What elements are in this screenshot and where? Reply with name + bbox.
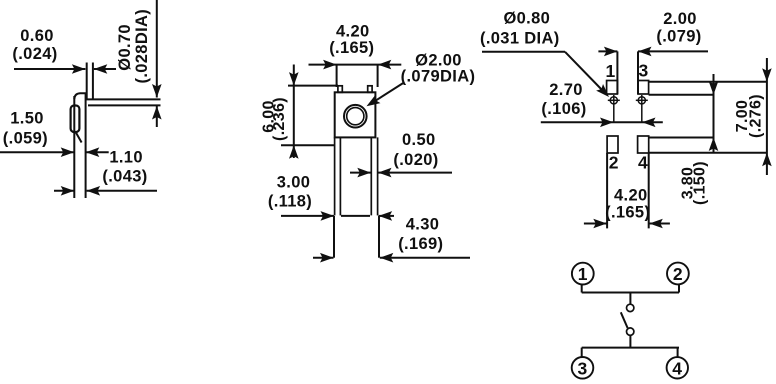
dimension text O0.80 (.031 DIA) xyxy=(480,10,560,48)
extension line pin4 bottom extended right xyxy=(649,152,767,154)
dimension text 0.60 (.024) xyxy=(12,27,57,63)
rotated dimension text 6.00 (.236) xyxy=(260,97,288,141)
pin 3 hole circle with cross xyxy=(636,95,648,122)
svg-text:(.169): (.169) xyxy=(398,235,443,253)
svg-text:(.028DIA): (.028DIA) xyxy=(133,9,151,84)
wire bottom bus to terminal 3 xyxy=(581,348,583,358)
dimension line 7.00 vertical with outside arrows xyxy=(762,58,772,175)
svg-text:1.50: 1.50 xyxy=(10,109,44,127)
extension line pin4 top extended right xyxy=(649,137,714,139)
left top post xyxy=(338,86,342,93)
pin label 1 xyxy=(606,61,616,81)
svg-text:(.020): (.020) xyxy=(393,151,438,169)
dimension text 4.20 (.165) right view xyxy=(605,187,650,222)
svg-text:Ø0.80: Ø0.80 xyxy=(503,10,550,28)
svg-text:0.60: 0.60 xyxy=(20,27,54,45)
dimension text 4.30 (.169) xyxy=(398,215,443,253)
dimension line 2.00 left segment with right arrow xyxy=(598,47,617,57)
extension line right tick of 0.60 xyxy=(92,63,94,100)
svg-text:1.10: 1.10 xyxy=(109,149,143,167)
wire bottom bus to terminal 4 xyxy=(677,348,679,358)
svg-text:4.20: 4.20 xyxy=(614,187,648,205)
lower contact circle xyxy=(627,328,634,335)
extension line left for 4.30 xyxy=(333,216,335,258)
svg-text:4: 4 xyxy=(638,153,648,173)
svg-text:(.150): (.150) xyxy=(692,161,709,205)
right top post xyxy=(368,86,372,93)
pin 3 outline xyxy=(638,81,649,95)
svg-text:(.276): (.276) xyxy=(747,94,764,138)
bump lower diagonal xyxy=(76,132,82,143)
dimension text O2.00 (.079DIA) xyxy=(401,52,476,86)
extension line left tick of 0.60 xyxy=(86,63,88,100)
dimension line 4.20 right view left segment with right arrow xyxy=(584,219,607,229)
dimension text 0.50 (.020) xyxy=(393,131,438,169)
dimension line 3.00 with arrows xyxy=(281,211,394,221)
dimension line 2.70 with inward pointing arrows xyxy=(541,118,663,128)
switch body front outline xyxy=(335,92,376,137)
dimension line 2.00 right segment with left arrow xyxy=(638,47,708,57)
dimension line 0.50 left segment with right arrow xyxy=(350,168,371,178)
terminal circle 3 xyxy=(572,357,594,379)
wire terminal 2 to top bus xyxy=(678,285,680,293)
extension line pin1 right edge xyxy=(616,51,618,94)
extension line pin4 right edge extended down xyxy=(648,153,650,228)
dimension text 1.10 (.043) xyxy=(102,149,147,186)
dimension line 4.20 with outside arrows xyxy=(309,60,402,70)
dimension line 3.80 vertical with outside arrows xyxy=(709,74,719,152)
svg-text:(.165): (.165) xyxy=(605,203,650,221)
terminal circle 2 xyxy=(667,263,689,285)
dimension line O0.70 upper vertical with down arrow xyxy=(152,0,162,98)
dimension line 1.10 right segment with left arrow xyxy=(87,186,157,196)
pin 2 outline xyxy=(607,136,618,153)
rotated dimension text 7.00 (.276) xyxy=(734,94,764,138)
switch body side profile pin vertical lines xyxy=(74,93,85,198)
svg-text:4.20: 4.20 xyxy=(336,23,370,41)
extension line bottom for 6.00 xyxy=(281,144,335,146)
dimension line 0.50 right segment with left arrow xyxy=(378,168,452,178)
switch lever xyxy=(621,312,628,328)
dimension line 6.00 vertical with outside arrows xyxy=(289,65,299,159)
pin label 4 xyxy=(638,153,648,173)
svg-text:3: 3 xyxy=(639,60,649,80)
pin 1 outline xyxy=(607,81,618,95)
svg-text:(.118): (.118) xyxy=(268,193,312,211)
svg-text:2.00: 2.00 xyxy=(663,10,697,28)
switch lead horizontal lines xyxy=(86,99,161,105)
dimension line 1.50 right segment with left arrow xyxy=(86,147,109,157)
dimension text 1.50 (.059) xyxy=(3,109,48,147)
side bump on body xyxy=(71,106,80,133)
svg-text:(.024): (.024) xyxy=(12,45,57,63)
svg-text:(.165): (.165) xyxy=(329,39,374,57)
right leg lines xyxy=(371,137,377,215)
left leg lines xyxy=(335,137,341,215)
dimension text 3.00 (.118) xyxy=(268,173,312,210)
svg-text:(.106): (.106) xyxy=(541,100,586,118)
rotated dimension text 3.80 (.150) xyxy=(679,161,708,205)
extension line top for 6.00 xyxy=(288,85,338,87)
pin label 3 xyxy=(639,60,649,80)
svg-text:(.236): (.236) xyxy=(271,97,288,141)
leader line for O0.80 with arrow xyxy=(482,52,612,101)
extension line pin3 bottom extended right xyxy=(649,94,714,96)
dimension line 4.30 right segment with left arrow xyxy=(380,253,470,263)
extension line pin3 top extended right xyxy=(649,81,767,83)
pin 4 outline xyxy=(638,136,649,153)
dimension line 0.60 left segment with right-pointing arrow xyxy=(14,64,85,74)
wire top bus to upper contact xyxy=(629,293,631,305)
bottom bus wire xyxy=(582,347,679,349)
extension line left of 4.20 xyxy=(336,65,338,87)
svg-text:(.059): (.059) xyxy=(3,129,48,147)
pin 1 hole circle with cross xyxy=(608,95,620,122)
terminal circle 4 xyxy=(667,357,688,378)
dimension line 1.10 left segment with right arrow xyxy=(54,186,74,196)
svg-text:(.043): (.043) xyxy=(102,168,147,186)
pin label 2 xyxy=(609,153,619,173)
svg-text:0.50: 0.50 xyxy=(402,131,436,149)
svg-text:2: 2 xyxy=(609,153,619,173)
svg-text:2: 2 xyxy=(673,264,683,284)
svg-text:(.079): (.079) xyxy=(656,28,701,46)
svg-text:4: 4 xyxy=(672,358,682,378)
svg-text:(.031 DIA): (.031 DIA) xyxy=(480,29,560,47)
rotated dimension text O0.70 (.028DIA) xyxy=(116,9,151,84)
dimension line 4.30 left segment with right arrow xyxy=(313,253,334,263)
extension line pin2 left edge extended down xyxy=(606,153,608,228)
dimension text 2.70 (.106) xyxy=(541,81,586,118)
terminal circle 1 xyxy=(572,263,594,285)
extension line pin3 left edge xyxy=(637,51,639,94)
svg-text:1: 1 xyxy=(606,61,616,81)
svg-text:4.30: 4.30 xyxy=(406,215,440,233)
dimension line 4.20 right view right segment with left arrow xyxy=(649,219,670,229)
svg-text:1: 1 xyxy=(578,264,588,284)
dimension line O0.70 lower vertical with up arrow xyxy=(152,106,162,127)
actuator hole outer circle xyxy=(344,105,367,128)
wire terminal 1 to top bus xyxy=(581,285,583,293)
svg-text:(.079DIA): (.079DIA) xyxy=(401,68,476,86)
actuator hole inner circle xyxy=(347,108,364,125)
upper contact circle xyxy=(627,304,634,311)
svg-text:2.70: 2.70 xyxy=(549,81,583,99)
body top bend curve xyxy=(74,93,86,99)
svg-text:3: 3 xyxy=(577,358,587,378)
dimension line 0.60 right segment with left-pointing arrow xyxy=(94,64,116,74)
leader line for O2.00 with arrow xyxy=(364,83,404,111)
top bus wire xyxy=(582,292,679,294)
wire lower contact to bottom bus xyxy=(629,335,631,347)
extension line right for 4.30 xyxy=(378,216,380,258)
dimension text 2.00 (.079) xyxy=(656,10,701,46)
svg-text:3.00: 3.00 xyxy=(277,173,311,191)
extension line right of 4.20 xyxy=(377,65,379,87)
svg-text:Ø0.70: Ø0.70 xyxy=(116,24,134,71)
dimension text 4.20 (.165) xyxy=(329,23,374,58)
dimension line 1.50 left segment with right arrow xyxy=(0,147,74,157)
